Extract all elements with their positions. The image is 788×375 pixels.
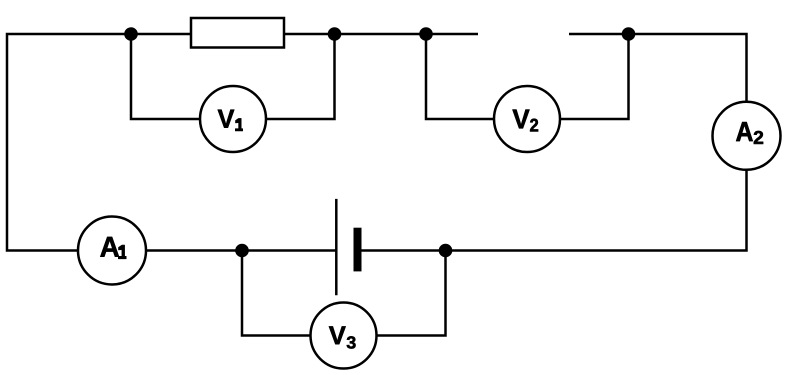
wire open switch gap right end through node E to top-right corner down to ammeter A2 <box>569 34 747 102</box>
wire voltmeter V3 right branch to node G <box>377 251 446 336</box>
voltmeter V3 label <box>329 326 346 344</box>
wire resistor R right lead through node C and node D to open switch gap left end <box>284 33 478 36</box>
wire ammeter A2 to node G via right rail and bottom-right corner <box>446 170 747 251</box>
ammeter A2 label <box>736 122 753 141</box>
node D junction dot (switch left / V2 tap) <box>419 27 433 41</box>
voltmeter V2 label <box>513 110 530 129</box>
voltmeter V2 circle <box>494 86 560 152</box>
node G junction dot (battery right / V3 tap) <box>439 244 453 258</box>
battery cell short thick plate (negative terminal) <box>354 228 362 272</box>
node F junction dot (battery left / V3 tap) <box>235 244 249 258</box>
wire battery short plate to node G <box>361 249 446 252</box>
ammeter A2 circle <box>713 102 781 170</box>
wire node B to resistor R left lead <box>131 33 191 36</box>
wire voltmeter V1 left branch from node B <box>131 34 200 119</box>
node B junction dot (resistor left / V1 tap) <box>124 27 138 41</box>
voltmeter V1 label <box>218 110 235 128</box>
wire voltmeter V2 left branch from node D <box>426 34 494 119</box>
wire left rail from node B via top-left and bottom-left corners to ammeter A1 <box>7 34 131 251</box>
battery cell long thin plate (positive terminal) <box>335 199 338 295</box>
wire ammeter A1 right lead through node F to battery long plate <box>146 249 336 252</box>
voltmeter V3 circle <box>311 303 377 369</box>
voltmeter V1 circle <box>200 86 266 152</box>
node E junction dot (switch right / V2 tap) <box>622 27 636 41</box>
node C junction dot (resistor right / V1 tap) <box>328 27 342 41</box>
wire voltmeter V1 right branch to node C <box>266 34 335 119</box>
ammeter A1 label <box>100 237 119 257</box>
ammeter A1 circle <box>78 217 146 285</box>
wire voltmeter V2 right branch to node E <box>560 34 629 119</box>
resistor R (rectangular box) <box>191 18 284 48</box>
wire voltmeter V3 left branch from node F <box>242 251 311 336</box>
